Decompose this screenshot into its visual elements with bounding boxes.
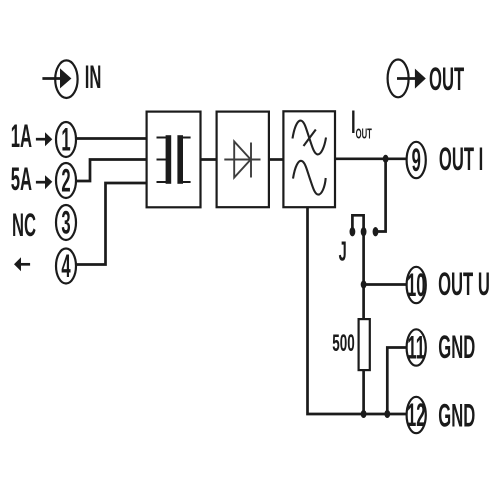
svg-text:I: I (351, 105, 356, 140)
svg-text:12: 12 (407, 398, 426, 433)
svg-text:5A: 5A (11, 163, 32, 198)
svg-text:IN: IN (85, 60, 102, 95)
svg-text:2: 2 (61, 164, 70, 199)
svg-text:NC: NC (12, 208, 36, 243)
svg-text:GND: GND (438, 399, 475, 434)
svg-text:500: 500 (332, 330, 354, 357)
svg-text:OUT: OUT (429, 62, 464, 97)
svg-text:4: 4 (61, 249, 71, 284)
svg-text:9: 9 (412, 143, 421, 178)
svg-text:GND: GND (438, 330, 475, 365)
svg-text:11: 11 (407, 331, 425, 366)
svg-text:OUT U: OUT U (438, 267, 490, 302)
svg-text:J: J (339, 235, 347, 266)
svg-text:1: 1 (61, 123, 70, 158)
svg-text:10: 10 (407, 268, 426, 303)
svg-text:OUT: OUT (356, 126, 372, 142)
svg-text:1A: 1A (11, 120, 32, 155)
svg-text:OUT I: OUT I (439, 142, 483, 177)
svg-text:3: 3 (61, 206, 70, 241)
